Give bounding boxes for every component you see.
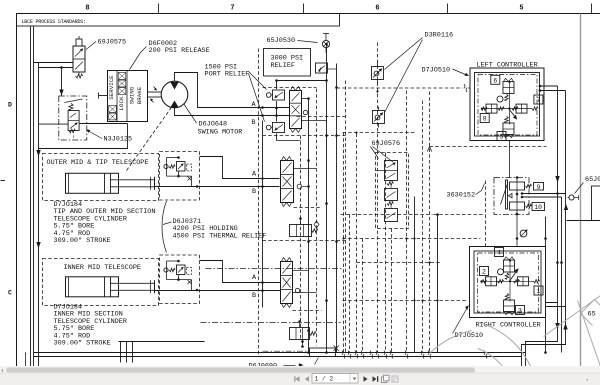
- svg-text:B: B: [252, 119, 256, 127]
- label N3J0125: [86, 130, 132, 144]
- svg-text:7: 7: [230, 5, 234, 13]
- svg-text:8: 8: [85, 5, 89, 13]
- label D6J0690: [249, 358, 319, 371]
- wire inner B: [155, 291, 281, 301]
- pilot grid junction dots: [342, 90, 438, 301]
- svg-text:8: 8: [483, 116, 487, 123]
- svg-text:C: C: [8, 290, 12, 297]
- wire right controller output stepped A: [526, 303, 558, 367]
- pilot dashed vertical x485: [485, 181, 487, 247]
- swing brake unit SERVICE LOCK / SWING BRAKE: [99, 71, 148, 122]
- svg-text:10: 10: [534, 204, 542, 211]
- wire outer A stepped: [200, 157, 280, 179]
- port square 10: [532, 203, 545, 212]
- inner telescope cylinder: [66, 277, 119, 297]
- right controller D7J0510: [470, 247, 546, 318]
- node x437 y214: [436, 213, 439, 216]
- toolbar prev-page button: [305, 376, 309, 382]
- wire right bus x545: [545, 217, 547, 353]
- flow arrow on bus x38 lower: [36, 242, 40, 249]
- wire swing port B: [175, 108, 290, 128]
- label D3R0116: [385, 32, 454, 113]
- wire vertical x262 solid: [262, 147, 264, 308]
- inner mid spool valve: [281, 258, 317, 308]
- check valve D3R0116 lower: [373, 111, 385, 124]
- svg-text:65: 65: [588, 311, 596, 319]
- component box right edge: [592, 186, 600, 221]
- svg-text:D3R0116: D3R0116: [425, 32, 454, 40]
- svg-text:5: 5: [519, 5, 523, 13]
- svg-text:9: 9: [537, 184, 541, 191]
- svg-text:2: 2: [482, 269, 486, 276]
- swing control spool valve: [290, 87, 327, 133]
- wire shuttle block outputs: [521, 192, 566, 198]
- label D6JO648 SWING MOTOR: [184, 104, 243, 137]
- svg-text:65J0530: 65J0530: [267, 37, 296, 45]
- toolbar background: [0, 373, 600, 385]
- tank bus bottom line 1: [34, 352, 526, 354]
- label block D7JO184 inner: [54, 304, 127, 348]
- wire vertical x262 upper stub: [262, 121, 264, 147]
- motor shaft coupling: [148, 87, 162, 103]
- toolbar first-page button: [294, 376, 299, 382]
- svg-text:PORT RELIEF: PORT RELIEF: [205, 71, 250, 79]
- svg-text:200 PSI RELEASE: 200 PSI RELEASE: [149, 47, 210, 55]
- svg-text:7: 7: [536, 97, 540, 104]
- wire outer B: [155, 187, 280, 197]
- main relief valve symbol: [316, 63, 337, 73]
- svg-text:6: 6: [493, 77, 497, 84]
- svg-text:3630152: 3630152: [447, 192, 476, 200]
- wire right bus x561: [561, 197, 563, 353]
- outer mid spool valve: [281, 157, 317, 207]
- svg-text:LOCK: LOCK: [118, 96, 125, 110]
- svg-text:OUTER MID & TIP TELESCOPE: OUTER MID & TIP TELESCOPE: [47, 159, 149, 167]
- svg-text:D7JO510: D7JO510: [422, 67, 451, 75]
- label D7JO510 left controller: [422, 67, 470, 77]
- node swing B: [275, 114, 278, 117]
- wire right controller pilot stub: [516, 215, 518, 247]
- inner holding valve: [160, 255, 200, 304]
- horizontal scrollbar: [0, 366, 600, 376]
- wire right edge y220: [567, 220, 600, 222]
- svg-text:SERVICE: SERVICE: [108, 75, 115, 100]
- label 1500 PSI PORT RELIEF: [205, 64, 267, 122]
- zone divider tick left: [1, 180, 6, 182]
- pump bus line x38: [38, 63, 40, 368]
- flow arrow up x565: [564, 204, 568, 210]
- svg-text:RIGHT CONTROLLER: RIGHT CONTROLLER: [476, 322, 541, 330]
- pilot dashed vertical x316: [316, 89, 318, 346]
- pilot dashdot bottom left: [119, 342, 309, 352]
- node swing A: [275, 107, 278, 110]
- title box LBCE PROCESS STANDARDS: [17, 14, 340, 27]
- wire valve 69J0575 to left bus: [34, 63, 74, 68]
- pilot check diamond x316: [314, 221, 319, 228]
- wire left controller to bus: [539, 85, 566, 92]
- svg-text:D: D: [8, 102, 12, 109]
- breather 65J0530 symbol: [322, 34, 329, 48]
- node right bus: [544, 192, 563, 264]
- svg-text:6: 6: [375, 5, 379, 13]
- wire right bus x565: [565, 91, 567, 307]
- check valve right edge: [568, 195, 579, 200]
- svg-text:D7JO510: D7JO510: [455, 332, 484, 340]
- label block D7JO184 outer: [54, 201, 156, 245]
- machine outline sketch gray: [431, 296, 600, 367]
- svg-text:INNER MID TELESCOPE: INNER MID TELESCOPE: [64, 264, 142, 272]
- wire N3J0125 outlet: [79, 123, 127, 125]
- wire bank vertical x336: [336, 64, 338, 353]
- inner mid sub valve: [290, 320, 316, 339]
- pilot dashed vertical x258: [258, 49, 260, 357]
- wire inner A stepped: [200, 261, 281, 283]
- pilot grid horizontals: [201, 88, 486, 323]
- svg-text:1 / 2: 1 / 2: [315, 376, 334, 383]
- flow arrow on bus x38 upper: [36, 150, 40, 157]
- label 69J0575: [86, 39, 126, 50]
- label 65J0 right edge: [575, 176, 600, 194]
- bank junction nodes: [261, 43, 338, 354]
- wire 69J0575 drop to N3J0125: [59, 66, 63, 96]
- outer holding valve D6J0371: [160, 152, 200, 201]
- label 3630152: [447, 184, 485, 200]
- wire bank vertical x326: [326, 44, 328, 353]
- svg-text:SWING: SWING: [129, 86, 136, 104]
- svg-text:BRAKE: BRAKE: [136, 86, 143, 104]
- svg-text:309.00" STROKE: 309.00" STROKE: [54, 237, 111, 245]
- solenoid valve 69J0575: [73, 36, 85, 78]
- label D6F0002 200 PSI RELEASE: [130, 40, 210, 70]
- svg-text:5: 5: [500, 134, 504, 141]
- wire swing port A: [175, 73, 290, 110]
- drain cluster mid-left: [121, 342, 133, 363]
- svg-text:B: B: [252, 188, 256, 196]
- toolbar page-mode icon 1: [382, 375, 390, 382]
- wire breather to bank: [325, 48, 328, 53]
- wire solid vertical x437: [437, 215, 439, 353]
- svg-text:SWING MOTOR: SWING MOTOR: [198, 129, 243, 137]
- sheet fold line right gray: [580, 14, 582, 367]
- pilot dashed enclosure left controller: [427, 147, 546, 152]
- wire brake box drain down-left: [39, 124, 128, 149]
- svg-text:3: 3: [518, 308, 522, 315]
- svg-text:4: 4: [497, 250, 501, 257]
- wire port relief risers: [275, 79, 328, 140]
- drain line bottom left: [25, 353, 27, 368]
- anti-cavitation valve N3J0125: [59, 96, 87, 140]
- pilot shuttle block ports 9 10: [494, 176, 532, 215]
- sheet border top line: [17, 13, 600, 15]
- drain orifice right mid: [520, 230, 527, 237]
- label 65J0530: [267, 37, 318, 45]
- pilot entry jumps left controller: [464, 84, 470, 92]
- port relief swing B 1500psi: [266, 125, 271, 130]
- svg-text:69J0576: 69J0576: [372, 140, 401, 148]
- toolbar last-page button: [373, 376, 379, 382]
- svg-text:4500 PSI THERMAL RELIEF: 4500 PSI THERMAL RELIEF: [173, 232, 267, 240]
- sheet zone ruler numbers: [85, 5, 523, 13]
- pilot dashed lines bank: [263, 88, 346, 311]
- wire right bus x557: [557, 86, 559, 303]
- svg-text:◂: ◂: [585, 377, 588, 383]
- schematic boundary double line left: [31, 26, 34, 368]
- svg-text:LBCE PROCESS STANDARDS:: LBCE PROCESS STANDARDS:: [22, 19, 86, 25]
- svg-text:B: B: [252, 292, 256, 300]
- label D7JO510 right controller: [453, 306, 484, 341]
- toolbar page-mode icon 2: [392, 376, 398, 382]
- port relief swing A 1500psi: [266, 93, 271, 98]
- left controller D7J0510: [470, 68, 544, 141]
- inner telescope dashed enclosure: [43, 259, 159, 306]
- bus break symbols: [342, 351, 487, 359]
- svg-text:D6JO648: D6JO648: [199, 121, 228, 129]
- wire solid vertical x414: [414, 197, 416, 353]
- label 69J0576: [371, 140, 401, 163]
- sheet zone ruler ticks: [159, 4, 592, 14]
- solenoid valve 69J0576: [376, 153, 409, 229]
- wire bank vertical x308: [308, 99, 310, 353]
- wire left controller pilot stub: [509, 141, 511, 178]
- pilot line grid verticals: [344, 43, 430, 353]
- wire right controller output stepped B: [522, 307, 566, 367]
- svg-text:65J05: 65J05: [585, 176, 600, 184]
- toolbar page input 1 / 2: [312, 374, 358, 384]
- label D6J0371 4200 PSI HOLDING: [162, 201, 266, 253]
- sheet border left line: [16, 14, 18, 367]
- svg-text:1: 1: [537, 288, 541, 295]
- outer mid sub valve: [290, 217, 318, 236]
- svg-text:N3J0125: N3J0125: [104, 136, 133, 144]
- flow arrows bottom right pair: [555, 323, 567, 330]
- label box 3000 PSI RELIEF: [264, 49, 311, 77]
- pilot dashed vertical x345: [345, 81, 347, 353]
- tank bus bottom line 2: [34, 356, 522, 358]
- svg-text:RELIEF: RELIEF: [271, 62, 295, 70]
- outer telescope cylinder: [66, 173, 119, 193]
- flow arrow right bus: [555, 176, 559, 183]
- port square 9: [534, 183, 544, 191]
- wire N3J0125 inlet: [39, 123, 69, 125]
- svg-text:309.00" STROKE: 309.00" STROKE: [54, 340, 111, 348]
- pilot dashed vertical x300: [300, 136, 302, 341]
- outer telescope dashed enclosure: [43, 154, 159, 201]
- swing motor D6J0648: [161, 81, 188, 108]
- toolbar next-page button: [364, 376, 368, 382]
- pilot drain dashed diagonal: [127, 105, 174, 171]
- check valve D3R0116 upper: [372, 67, 384, 80]
- bottom manifold block: [301, 340, 339, 357]
- svg-text:69J0575: 69J0575: [98, 39, 127, 47]
